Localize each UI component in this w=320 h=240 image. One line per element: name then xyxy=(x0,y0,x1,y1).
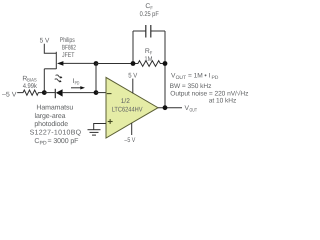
wire feedback left vertical xyxy=(132,31,134,64)
capacitor CF xyxy=(133,25,165,38)
svg-text:Hamamatsu: Hamamatsu xyxy=(36,104,73,111)
wire feedback right vertical xyxy=(164,31,166,108)
wire summing vertical xyxy=(95,64,97,93)
wire JFET drain xyxy=(44,44,56,54)
svg-text:S1227-1010BQ: S1227-1010BQ xyxy=(30,130,82,137)
svg-text:–5 V: –5 V xyxy=(124,137,135,144)
svg-text:OUT: OUT xyxy=(176,75,186,81)
ground xyxy=(88,130,101,135)
svg-text:large-area: large-area xyxy=(35,112,66,120)
svg-text:at 10 kHz: at 10 kHz xyxy=(209,98,236,105)
svg-text:PD: PD xyxy=(40,141,47,147)
wire to op-amp inverting input xyxy=(96,92,106,94)
svg-text:5 V: 5 V xyxy=(40,37,50,44)
svg-text:5 V: 5 V xyxy=(128,72,137,79)
node summing / gate junction xyxy=(94,61,99,66)
svg-text:BF862: BF862 xyxy=(62,45,76,52)
node RBIAS / JFET source / photodiode cathode junction xyxy=(42,90,47,95)
transistor Q1 BF862 JFET xyxy=(44,52,96,69)
wire JFET source down to photodiode row xyxy=(43,69,45,93)
label output notes xyxy=(170,73,249,105)
resistor RBIAS xyxy=(17,90,44,95)
wire junction to photodiode cathode xyxy=(44,92,55,94)
svg-text:1M: 1M xyxy=(144,56,152,63)
wire non-inverting input to ground xyxy=(94,124,106,130)
svg-text:LTC6244HV: LTC6244HV xyxy=(112,106,143,113)
power -5V op-amp supply xyxy=(131,123,133,135)
resistor RF xyxy=(133,61,165,67)
svg-text:Philips: Philips xyxy=(60,37,75,44)
svg-text:= 3000 pF: = 3000 pF xyxy=(48,138,79,145)
svg-text:= 1M • I: = 1M • I xyxy=(188,73,210,80)
wire photodiode anode to summing junction xyxy=(63,92,96,94)
op-amp non-inverting pin mark xyxy=(108,119,113,124)
node feedback left junction xyxy=(131,61,136,66)
wire output xyxy=(158,107,182,109)
svg-text:BW = 350 kHz: BW = 350 kHz xyxy=(170,83,212,90)
current arrow IPD xyxy=(71,87,81,89)
svg-text:4.99k: 4.99k xyxy=(23,83,38,90)
svg-text:OUT: OUT xyxy=(190,107,198,113)
svg-text:PD: PD xyxy=(75,80,80,86)
op-amp U1 1/2 LTC6244HV xyxy=(106,77,158,138)
wire summing node horizontal to feedback xyxy=(96,63,133,65)
label Hamamatsu photodiode note xyxy=(30,104,82,136)
photodiode light arrows xyxy=(55,74,63,79)
transistor Q1 gate arrow xyxy=(57,61,63,66)
svg-text:photodiode: photodiode xyxy=(34,120,68,128)
op-amp inverting pin mark xyxy=(107,93,112,95)
svg-text:Output noise = 220 nV/√Hz: Output noise = 220 nV/√Hz xyxy=(170,90,248,98)
node feedback right junction xyxy=(163,61,168,66)
svg-text:JFET: JFET xyxy=(62,52,74,59)
node output junction xyxy=(163,105,168,110)
photodiode D1 xyxy=(55,89,62,98)
node photodiode anode / inverting input junction xyxy=(94,90,99,95)
svg-text:0.25 pF: 0.25 pF xyxy=(140,11,159,18)
svg-text:–5 V: –5 V xyxy=(2,91,17,98)
svg-text:PD: PD xyxy=(212,75,219,81)
svg-text:1/2: 1/2 xyxy=(121,98,130,105)
